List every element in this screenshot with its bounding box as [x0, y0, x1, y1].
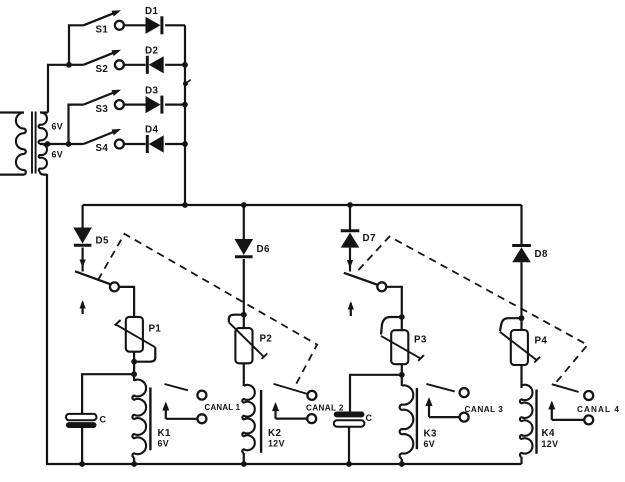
- svg-text:D4: D4: [145, 125, 158, 136]
- node capacitor tap branch3: [399, 372, 405, 378]
- arrow actuation K1: [80, 300, 86, 314]
- dashed mechanical link K1-CANAL2: [98, 234, 317, 388]
- relay contact K3 lever: [344, 273, 378, 285]
- node junction S2 feed: [66, 62, 72, 68]
- label K4 voltage: [542, 439, 559, 449]
- svg-text:C: C: [100, 414, 107, 424]
- wire CANAL2 common: [272, 402, 307, 419]
- wire D5 to contact K1: [80, 248, 86, 272]
- label D6: [257, 244, 270, 255]
- label D7: [363, 233, 376, 244]
- svg-text:D7: D7: [363, 233, 376, 244]
- wire to capacitor C1: [82, 374, 134, 414]
- wire P3 to K3: [401, 364, 403, 386]
- relay K2 core bar: [260, 390, 262, 453]
- svg-text:12V: 12V: [268, 438, 285, 448]
- label D8: [535, 249, 548, 260]
- wire to capacitor C2: [350, 375, 402, 412]
- relay contact CANAL2 upper terminal: [307, 391, 316, 400]
- wire C2 to ground rail: [348, 427, 350, 464]
- wire contact to P1: [119, 287, 134, 317]
- relay contact CANAL3 arm: [426, 384, 454, 392]
- relay contact CANAL1 upper terminal: [197, 391, 206, 400]
- label S4: [96, 143, 109, 154]
- relay contact K1 terminal: [110, 282, 119, 291]
- svg-text:D2: D2: [145, 46, 158, 57]
- node K1-rail: [131, 461, 137, 467]
- wire P1 wiper loop: [136, 347, 155, 361]
- capacitor C plate lower: [66, 422, 97, 428]
- node C2-rail: [346, 461, 352, 467]
- wire S3 to D3: [124, 103, 146, 105]
- potentiometer P2 body: [235, 328, 252, 363]
- capacitor C plate upper (branch 3): [334, 412, 365, 418]
- potentiometer P1 wiper: [115, 320, 156, 347]
- diode D4: [147, 135, 163, 153]
- node K2-rail: [241, 461, 247, 467]
- label K3: [424, 429, 437, 440]
- diode D7: [341, 231, 360, 248]
- label D3: [145, 85, 158, 96]
- node bus mark: [183, 80, 191, 87]
- wire P4 wiper loop: [500, 318, 522, 331]
- node bus-D3: [182, 102, 188, 108]
- potentiometer P1 body: [126, 317, 143, 352]
- switch S2 contact: [115, 60, 124, 69]
- label C (branch 3): [366, 413, 373, 423]
- node bus to rail: [182, 202, 188, 208]
- wire secondary bottom return (left rail): [47, 174, 522, 464]
- label CANAL2: [306, 404, 344, 413]
- svg-text:K1: K1: [158, 428, 171, 439]
- wire CANAL4 common: [548, 401, 584, 420]
- switch S1 lever: [84, 10, 122, 25]
- wire rail to D6: [243, 205, 245, 239]
- svg-text:CANAL 3: CANAL 3: [465, 405, 504, 414]
- label D1: [145, 6, 158, 17]
- node bus-D4: [182, 141, 188, 147]
- switch S4 contact: [115, 140, 124, 149]
- svg-text:D8: D8: [535, 249, 548, 260]
- wire feed to S2 lever: [69, 64, 84, 66]
- svg-text:K4: K4: [542, 428, 555, 439]
- svg-text:P3: P3: [414, 335, 427, 346]
- node P2 wiper join: [241, 312, 247, 318]
- label D4: [145, 125, 158, 136]
- relay contact CANAL1 arm: [165, 384, 189, 390]
- switch S4 lever: [84, 129, 122, 144]
- relay contact CANAL4 arm: [552, 384, 579, 392]
- dashed mechanical link K3-CANAL4: [359, 237, 588, 383]
- label P3: [414, 335, 427, 346]
- diode D2: [147, 56, 163, 74]
- switch S1 contact: [115, 21, 124, 30]
- wire K4 to rail corner: [520, 457, 522, 464]
- arrow actuation K3: [348, 301, 354, 316]
- node C1-rail: [79, 461, 85, 467]
- svg-text:K2: K2: [268, 428, 281, 439]
- wire center tap to S4 row: [40, 143, 84, 145]
- relay coil K4: [520, 385, 533, 457]
- wire D7 to contact K3: [347, 248, 353, 272]
- node capacitor tap: [131, 371, 137, 377]
- relay contact CANAL4 upper terminal: [584, 391, 593, 400]
- relay contact CANAL3 upper terminal: [460, 388, 469, 397]
- svg-text:S3: S3: [96, 104, 109, 115]
- wire D6 to P2: [243, 259, 245, 386]
- relay contact CANAL4 lower terminal: [584, 415, 593, 424]
- label D2: [145, 46, 158, 57]
- svg-text:6V: 6V: [424, 439, 436, 449]
- relay contact CANAL3 lower terminal: [460, 413, 469, 422]
- label CANAL3: [465, 405, 504, 414]
- svg-text:6V: 6V: [158, 438, 170, 448]
- relay coil K1: [132, 380, 146, 464]
- svg-text:D6: D6: [257, 244, 270, 255]
- wire rail to D7: [349, 205, 351, 231]
- node P1 wiper join: [131, 359, 137, 365]
- node rail-D7: [347, 202, 353, 208]
- wire D4 to bus: [165, 143, 185, 145]
- label CANAL1: [205, 403, 241, 412]
- svg-text:CANAL 4: CANAL 4: [577, 405, 620, 414]
- capacitor C plate lower (branch 3): [334, 420, 365, 426]
- diode D3: [146, 96, 162, 114]
- label C (branch 1): [100, 414, 107, 424]
- potentiometer P2 wiper: [229, 322, 267, 359]
- svg-text:CANAL 1: CANAL 1: [205, 403, 241, 412]
- node center tap: [45, 141, 51, 147]
- node P3 wiper join: [399, 314, 405, 320]
- potentiometer P4 wiper: [500, 332, 540, 363]
- relay K3 core bar: [416, 388, 418, 449]
- wire secondary top to S1-S2 feed: [48, 65, 69, 113]
- relay contact K3 terminal: [377, 282, 386, 291]
- relay contact CANAL2 arm: [274, 384, 308, 394]
- switch S2 lever: [84, 50, 122, 65]
- potentiometer P4 body: [511, 330, 528, 365]
- svg-text:P2: P2: [260, 334, 273, 345]
- svg-text:6V: 6V: [52, 122, 64, 132]
- wire riser S3: [69, 105, 84, 144]
- wire S4 to D4: [124, 143, 146, 145]
- wire D1 to bus: [165, 24, 185, 26]
- transformer T1 secondary winding: [39, 112, 48, 174]
- diode D5: [73, 228, 92, 246]
- relay contact CANAL2 lower terminal: [307, 414, 316, 423]
- svg-text:C: C: [366, 413, 373, 423]
- relay coil K2: [242, 385, 255, 464]
- label S3: [96, 104, 109, 115]
- node junction S3 feed: [66, 141, 72, 147]
- wire D3 to bus: [165, 103, 185, 105]
- node P4 wiper join: [519, 315, 525, 321]
- wire CANAL3 common: [426, 397, 460, 417]
- wire S1 to D1: [124, 24, 146, 26]
- switch S3 contact: [115, 100, 124, 109]
- wire P3 wiper loop: [381, 317, 402, 335]
- node bus-D2: [182, 62, 188, 68]
- wire P2 wiper loop: [229, 315, 244, 323]
- diode D8: [512, 246, 531, 263]
- label 6V lower secondary: [52, 150, 64, 160]
- wire D8 to P4: [520, 262, 522, 388]
- relay contact CANAL1 lower terminal: [197, 414, 206, 423]
- wire P1 to K1: [133, 352, 135, 381]
- label D5: [96, 236, 109, 247]
- node K3-rail: [399, 461, 405, 467]
- node rail-D6: [241, 202, 247, 208]
- diode D1: [146, 16, 162, 34]
- relay coil K3: [400, 385, 414, 464]
- label 6V upper secondary: [52, 122, 64, 132]
- svg-text:S4: S4: [96, 143, 109, 154]
- diode D6: [235, 239, 254, 257]
- svg-text:12V: 12V: [542, 439, 559, 449]
- label K2: [268, 428, 281, 439]
- label CANAL4: [577, 405, 620, 414]
- transformer T1 primary winding: [0, 113, 26, 175]
- svg-text:CANAL 2: CANAL 2: [306, 404, 344, 413]
- svg-text:K3: K3: [424, 429, 437, 440]
- svg-text:D3: D3: [145, 85, 158, 96]
- svg-text:P1: P1: [149, 324, 162, 335]
- label K1 voltage: [158, 438, 170, 448]
- wire diode bus: [184, 25, 186, 205]
- wire contact to P3: [386, 287, 402, 330]
- svg-text:6V: 6V: [52, 150, 64, 160]
- wire D2 to bus: [165, 64, 185, 66]
- relay K1 core bar: [149, 387, 151, 450]
- relay K4 core bar: [535, 390, 537, 454]
- wire C1 to ground rail: [81, 428, 83, 464]
- svg-text:S1: S1: [96, 25, 109, 36]
- potentiometer P3 wiper: [381, 336, 424, 361]
- svg-text:S2: S2: [96, 64, 109, 75]
- label P2: [260, 334, 273, 345]
- svg-text:D5: D5: [96, 236, 109, 247]
- label K1: [158, 428, 171, 439]
- wire CANAL1 common: [162, 402, 197, 419]
- label S2: [96, 64, 109, 75]
- wire rail to D8: [520, 205, 522, 246]
- label K4: [542, 428, 555, 439]
- wire S2 to D2: [124, 64, 146, 66]
- wire rail to D5: [81, 205, 83, 228]
- svg-text:P4: P4: [535, 336, 548, 347]
- label P4: [535, 336, 548, 347]
- wire riser S2 to S1: [69, 25, 84, 65]
- wire main supply rail: [83, 204, 522, 206]
- transformer core: [32, 112, 36, 174]
- relay contact K1 lever: [75, 271, 110, 284]
- capacitor C plate upper: [66, 414, 97, 420]
- label S1: [96, 25, 109, 36]
- switch S3 lever: [84, 90, 122, 105]
- svg-text:D1: D1: [145, 6, 158, 17]
- label K2 voltage: [268, 438, 285, 448]
- label K3 voltage: [424, 439, 436, 449]
- potentiometer P3 body: [391, 330, 408, 364]
- label P1: [149, 324, 162, 335]
